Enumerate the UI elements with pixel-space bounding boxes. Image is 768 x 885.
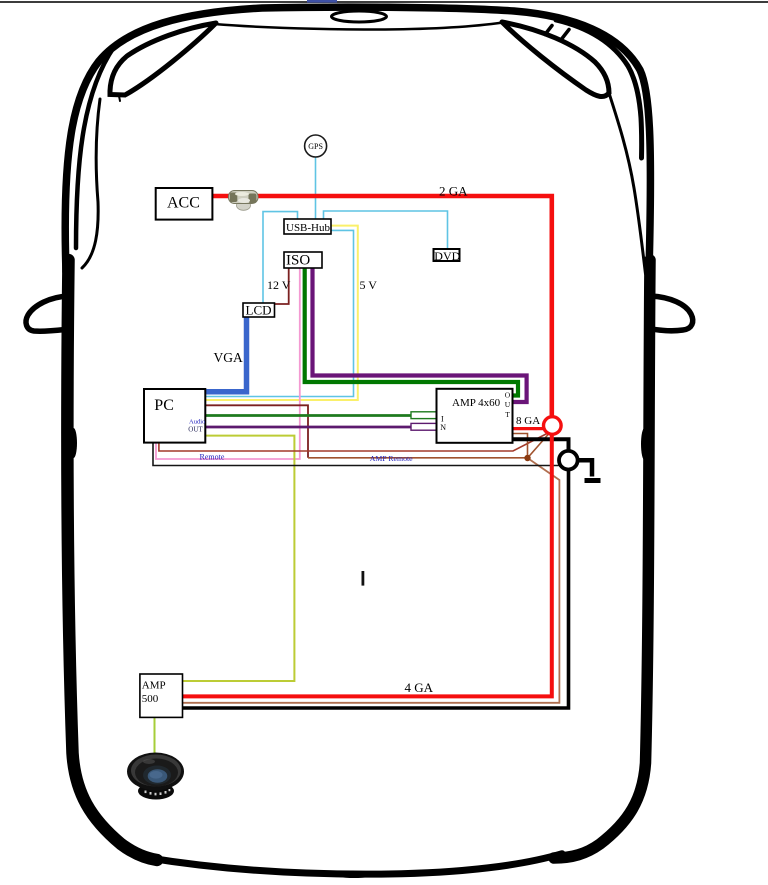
svg-text:AMP Remote: AMP Remote — [370, 454, 413, 463]
svg-text:OUT: OUT — [188, 425, 203, 433]
svg-text:PC: PC — [154, 397, 174, 414]
svg-text:8 GA: 8 GA — [516, 415, 540, 427]
svg-text:O: O — [505, 391, 511, 400]
svg-text:AMP 4x60: AMP 4x60 — [452, 397, 501, 409]
svg-text:U: U — [505, 400, 511, 409]
svg-text:5 V: 5 V — [360, 278, 378, 292]
svg-text:T: T — [505, 410, 510, 419]
svg-text:LCD: LCD — [246, 303, 272, 318]
svg-text:USB-Hub: USB-Hub — [286, 222, 331, 234]
svg-text:DVD: DVD — [434, 249, 460, 263]
svg-text:4 GA: 4 GA — [405, 680, 434, 695]
svg-text:ACC: ACC — [167, 195, 200, 212]
svg-text:12 V: 12 V — [267, 278, 291, 292]
svg-text:N: N — [440, 423, 446, 432]
svg-text:VGA: VGA — [214, 350, 243, 365]
svg-text:2 GA: 2 GA — [439, 183, 468, 198]
svg-text:GPS: GPS — [308, 142, 323, 151]
svg-text:500: 500 — [142, 693, 159, 705]
svg-text:AMP: AMP — [142, 680, 166, 692]
svg-text:ISO: ISO — [286, 253, 310, 269]
svg-text:Remote: Remote — [200, 452, 225, 461]
